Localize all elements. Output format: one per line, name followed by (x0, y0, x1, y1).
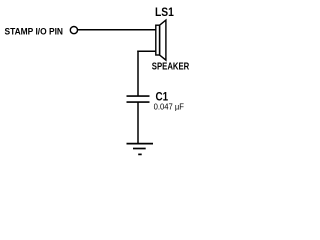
svg-text:LS1: LS1 (155, 5, 174, 19)
speaker LS1 symbol (driver rectangle and cone) (156, 20, 166, 60)
wire from stamp pin terminal to speaker LS1 top terminal (78, 29, 156, 31)
svg-text:SPEAKER: SPEAKER (152, 62, 190, 73)
wire from speaker LS1 bottom terminal to capacitor C1 (vertical segment) (137, 51, 139, 97)
svg-text:STAMP I/O PIN: STAMP I/O PIN (5, 27, 64, 38)
ground symbol (three bars) (127, 144, 154, 155)
svg-text:0.047 µF: 0.047 µF (154, 102, 184, 111)
capacitor C1 (two plates) (127, 96, 150, 102)
wire from speaker LS1 bottom terminal to capacitor C1 (horizontal stub) (137, 50, 156, 52)
terminal STAMP I/O PIN (open circle) (70, 27, 77, 34)
wire from capacitor C1 to ground (vertical segment) (137, 102, 139, 143)
